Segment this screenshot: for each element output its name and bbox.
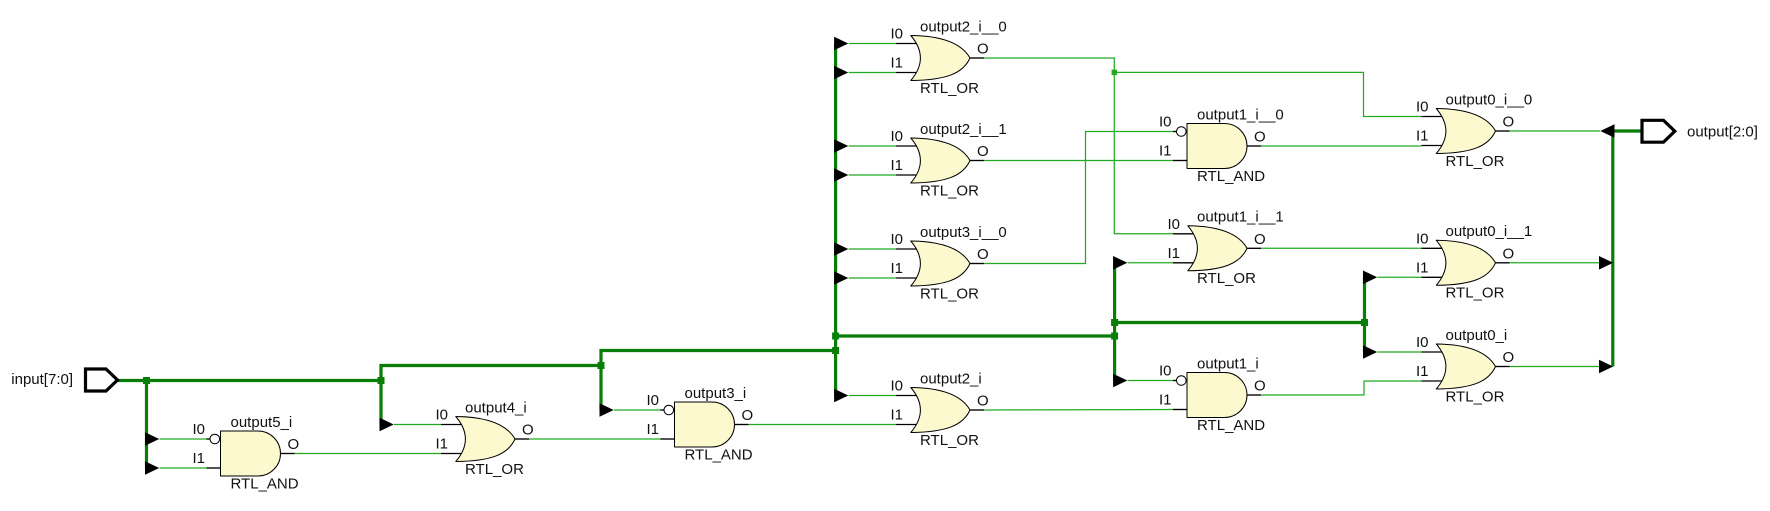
svg-text:I0: I0 — [647, 392, 660, 409]
svg-text:output[2:0]: output[2:0] — [1687, 124, 1758, 141]
wire bus corner up at x=381 then right to x=601 — [381, 366, 601, 381]
wire bus vertical drop at x=147 to output5_i inputs — [145, 381, 148, 469]
svg-text:output0_i__0: output0_i__0 — [1446, 91, 1533, 108]
svg-text:I1: I1 — [1159, 392, 1172, 409]
or-gate output0_i (RTL_OR) — [1422, 344, 1510, 389]
svg-text:I0: I0 — [193, 421, 206, 438]
svg-text:output3_i__0: output3_i__0 — [920, 224, 1007, 241]
junction at (147,380.5) — [143, 377, 150, 384]
net feed output5_i I1 — [160, 467, 207, 469]
net feed output0_i I0 — [1378, 351, 1422, 353]
svg-text:I1: I1 — [891, 407, 904, 424]
arrow feed output2_i__1 I0 — [834, 139, 848, 153]
and-gate output1_i__0 (RTL_AND) — [1173, 124, 1261, 169]
svg-text:I0: I0 — [1159, 363, 1172, 380]
svg-text:RTL_OR: RTL_OR — [465, 461, 524, 478]
wire bus horizontal y=322.5 from x=1114 to x=1364 — [1115, 321, 1365, 324]
output port output[2:0] — [1642, 120, 1675, 142]
net output0_i__1 O to merge bus — [1510, 262, 1602, 264]
svg-text:O: O — [977, 41, 989, 58]
svg-text:I1: I1 — [891, 260, 904, 277]
svg-text:RTL_OR: RTL_OR — [920, 285, 979, 302]
svg-text:output5_i: output5_i — [231, 414, 293, 431]
svg-text:I0: I0 — [1416, 99, 1429, 116]
arrow merge output0_i O into output bus — [1599, 360, 1613, 374]
svg-text:I0: I0 — [436, 407, 449, 424]
junction green at (1114,72.4) — [1112, 70, 1118, 76]
junction at (835,336) — [832, 333, 839, 340]
input port input[7:0] — [86, 369, 118, 391]
net output3_i__0 O up x=1085 to output1_i__0 I0 — [983, 132, 1173, 264]
wire bus output[2:0] vertical trunk x=1613 — [1611, 131, 1614, 367]
or-gate output2_i (RTL_OR) — [896, 388, 984, 433]
net output2_i__0 O down x=1114 to output1_i__1 I0 — [984, 58, 1173, 234]
svg-text:O: O — [977, 393, 989, 410]
or-gate output0_i__0 (RTL_OR) — [1422, 109, 1510, 154]
arrow feed output2_i__1 I1 — [834, 168, 848, 182]
net output1_i O stepped to output0_i I1 — [1261, 381, 1422, 395]
svg-text:I1: I1 — [1416, 128, 1429, 145]
arrow feed output5_i I0 — [145, 432, 159, 446]
and-gate output5_i (RTL_AND) — [207, 431, 295, 476]
svg-text:I0: I0 — [1159, 114, 1172, 131]
net feed output2_i__0 I1 — [849, 72, 896, 74]
svg-text:RTL_OR: RTL_OR — [1446, 153, 1505, 170]
svg-text:output2_i__1: output2_i__1 — [920, 121, 1007, 138]
wire bus vertical trunk x=835 feeding OR column — [834, 44, 837, 396]
svg-text:I0: I0 — [1168, 216, 1181, 233]
svg-text:input[7:0]: input[7:0] — [11, 371, 73, 388]
wire bus vertical drop at x=381 to output4_i I0 — [379, 381, 382, 425]
svg-text:RTL_OR: RTL_OR — [920, 80, 979, 97]
junction at (1364,322.5) — [1361, 319, 1368, 326]
wire bus corner up at x=601 then right to x=835 — [601, 351, 836, 366]
or-gate output0_i__1 (RTL_OR) — [1422, 240, 1510, 285]
svg-text:O: O — [1503, 349, 1515, 366]
wire bus vertical trunk x=1114 feeding output1 gates — [1113, 263, 1116, 381]
svg-text:O: O — [1254, 231, 1266, 248]
svg-text:I1: I1 — [1416, 260, 1429, 277]
svg-text:I1: I1 — [891, 55, 904, 72]
net output1_i__0 O to output0_i__0 I1 — [1261, 145, 1422, 147]
svg-text:output2_i: output2_i — [920, 370, 982, 387]
svg-text:output1_i: output1_i — [1197, 355, 1259, 372]
net output2_i O to output1_i I1 — [984, 409, 1173, 412]
svg-text:O: O — [288, 436, 300, 453]
svg-text:RTL_OR: RTL_OR — [1446, 388, 1505, 405]
arrow feed output4_i I0 — [380, 418, 394, 432]
svg-text:RTL_AND: RTL_AND — [685, 446, 753, 463]
svg-text:I0: I0 — [891, 378, 904, 395]
net feed output0_i__1 I1 — [1378, 276, 1422, 278]
svg-text:I1: I1 — [193, 450, 206, 467]
svg-text:RTL_AND: RTL_AND — [1197, 168, 1265, 185]
arrow feed output2_i__0 I0 — [834, 37, 848, 51]
net output0_i O to merge bus — [1510, 366, 1602, 368]
svg-text:I0: I0 — [1416, 334, 1429, 351]
svg-text:I0: I0 — [891, 26, 904, 43]
wire bus stub into output port — [1613, 129, 1643, 132]
svg-text:O: O — [1503, 246, 1515, 263]
wire bus vertical drop at x=601 to output3_i I0 — [599, 366, 602, 411]
arrow feed output2_i I0 — [834, 389, 848, 403]
net feed output2_i I0 — [849, 395, 896, 397]
net feed output2_i__0 I0 — [849, 43, 896, 45]
svg-text:I1: I1 — [436, 436, 449, 453]
svg-text:O: O — [522, 422, 534, 439]
svg-text:RTL_OR: RTL_OR — [920, 432, 979, 449]
svg-text:I0: I0 — [891, 128, 904, 145]
or-gate output2_i__1 (RTL_OR) — [896, 138, 984, 183]
svg-text:RTL_OR: RTL_OR — [920, 182, 979, 199]
net feed output3_i I0 — [614, 409, 661, 411]
svg-text:I1: I1 — [1416, 363, 1429, 380]
svg-text:output1_i__1: output1_i__1 — [1197, 209, 1284, 226]
net output4_i O to output3_i I1 — [529, 438, 661, 440]
arrow feed output3_i I0 — [600, 403, 614, 417]
net output0_i__0 O to merge arrow — [1510, 130, 1601, 132]
svg-text:I0: I0 — [891, 231, 904, 248]
arrow feed output2_i__0 I1 — [834, 66, 848, 80]
or-gate output3_i__0 (RTL_OR) — [896, 241, 984, 286]
arrow feed output5_i I1 — [145, 461, 159, 475]
or-gate output4_i (RTL_OR) — [441, 417, 529, 462]
svg-text:output4_i: output4_i — [465, 399, 527, 416]
and-gate output3_i (RTL_AND) — [661, 402, 749, 447]
junction at (601,365.5) — [598, 362, 605, 369]
wire bus vertical trunk x=1364 feeding output0 gates — [1363, 277, 1366, 352]
net feed output2_i__1 I1 — [849, 174, 896, 176]
svg-text:output0_i__1: output0_i__1 — [1446, 223, 1533, 240]
junction at (1114,336) — [1111, 333, 1118, 340]
arrow feed output0_i__1 I1 — [1363, 271, 1377, 285]
or-gate output2_i__0 (RTL_OR) — [896, 36, 984, 81]
arrow merge output0_i__0 O into output bus — [1600, 124, 1614, 138]
svg-text:RTL_OR: RTL_OR — [1446, 285, 1505, 302]
svg-text:O: O — [977, 246, 989, 263]
arrow feed output0_i I0 — [1363, 345, 1377, 359]
svg-text:I0: I0 — [1416, 231, 1429, 248]
arrow feed output1_i__1 I1 — [1113, 256, 1127, 270]
svg-text:O: O — [742, 407, 754, 424]
arrow feed output3_i__0 I1 — [834, 271, 848, 285]
svg-text:output2_i__0: output2_i__0 — [920, 18, 1007, 35]
svg-text:output1_i__0: output1_i__0 — [1197, 106, 1284, 123]
svg-text:RTL_AND: RTL_AND — [1197, 417, 1265, 434]
svg-text:O: O — [977, 143, 989, 160]
svg-text:O: O — [1254, 129, 1266, 146]
net feed output5_i I0 — [160, 438, 207, 440]
svg-text:I1: I1 — [891, 157, 904, 174]
and-gate output1_i (RTL_AND) — [1173, 373, 1261, 418]
wire bus input[7:0] horizontal from input port to x=381 — [118, 379, 382, 382]
net feed output3_i__0 I0 — [849, 248, 896, 250]
arrow merge output0_i__1 O into output bus — [1599, 256, 1613, 270]
net feed output1_i I0 — [1128, 380, 1173, 382]
svg-text:I1: I1 — [647, 421, 660, 438]
or-gate output1_i__1 (RTL_OR) — [1173, 226, 1261, 271]
svg-text:O: O — [1254, 378, 1266, 395]
arrow feed output3_i__0 I0 — [834, 242, 848, 256]
svg-text:RTL_OR: RTL_OR — [1197, 270, 1256, 287]
junction at (381,380.5) — [378, 377, 385, 384]
junction at (1114,322.5) — [1111, 319, 1118, 326]
svg-text:RTL_AND: RTL_AND — [231, 475, 299, 492]
wire bus horizontal y=336 from x=835 to x=1114 — [836, 334, 1115, 337]
svg-text:output3_i: output3_i — [685, 385, 747, 402]
net feed output1_i__1 I1 — [1128, 262, 1173, 264]
svg-text:O: O — [1503, 114, 1515, 131]
net feed output4_i I0 — [394, 424, 441, 426]
net feed output3_i__0 I1 — [849, 277, 896, 279]
svg-text:I1: I1 — [1159, 143, 1172, 160]
junction at (835,350.5) — [832, 347, 839, 354]
net branch of output2_i__0 O to output0_i__0 I0 — [1114, 72, 1421, 116]
net output5_i O to output4_i I1 — [295, 453, 442, 455]
arrow feed output1_i I0 — [1113, 374, 1127, 388]
svg-text:output0_i: output0_i — [1446, 327, 1508, 344]
net feed output2_i__1 I0 — [849, 145, 896, 147]
net output3_i O to output2_i I1 — [749, 424, 897, 426]
svg-text:I1: I1 — [1168, 245, 1181, 262]
net output2_i__1 O to output1_i__0 I1 — [984, 160, 1173, 162]
net output1_i__1 O to output0_i__1 I0 — [1261, 247, 1422, 249]
